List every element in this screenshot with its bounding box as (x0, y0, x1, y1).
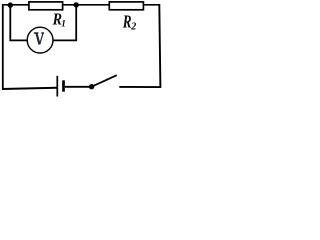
wire top-left segment (2, 4, 30, 6)
wire voltmeter branch left vertical (9, 5, 11, 41)
wire battery to switch pivot (65, 86, 90, 88)
wire bottom-left segment (to battery) (2, 88, 57, 89)
wire left border vertical (2, 4, 4, 89)
battery short thick plate (negative) (62, 80, 65, 91)
svg-text:1: 1 (61, 19, 66, 29)
wire voltmeter branch right vertical (75, 5, 77, 41)
wire voltmeter branch left horizontal (10, 39, 28, 41)
resistor R2 (109, 2, 143, 10)
wire switch fixed contact to bottom-right corner (119, 86, 160, 88)
resistor R1 (29, 2, 63, 10)
voltmeter letter V (34, 33, 44, 45)
wire R2 to top-right corner (144, 4, 161, 6)
wire right border vertical (159, 4, 160, 88)
voltmeter V (circle) (27, 27, 53, 53)
node junction A (top wire to voltmeter branch) (8, 2, 13, 7)
wire voltmeter branch right horizontal (53, 39, 77, 41)
switch lever (open) (92, 75, 117, 87)
switch pivot node (89, 84, 94, 89)
node junction B (top wire to voltmeter branch) (74, 2, 79, 7)
battery long plate (positive) (56, 76, 58, 97)
svg-text:2: 2 (130, 21, 136, 32)
svg-text:R: R (122, 12, 132, 32)
wire between R1 and R2 (63, 4, 109, 6)
